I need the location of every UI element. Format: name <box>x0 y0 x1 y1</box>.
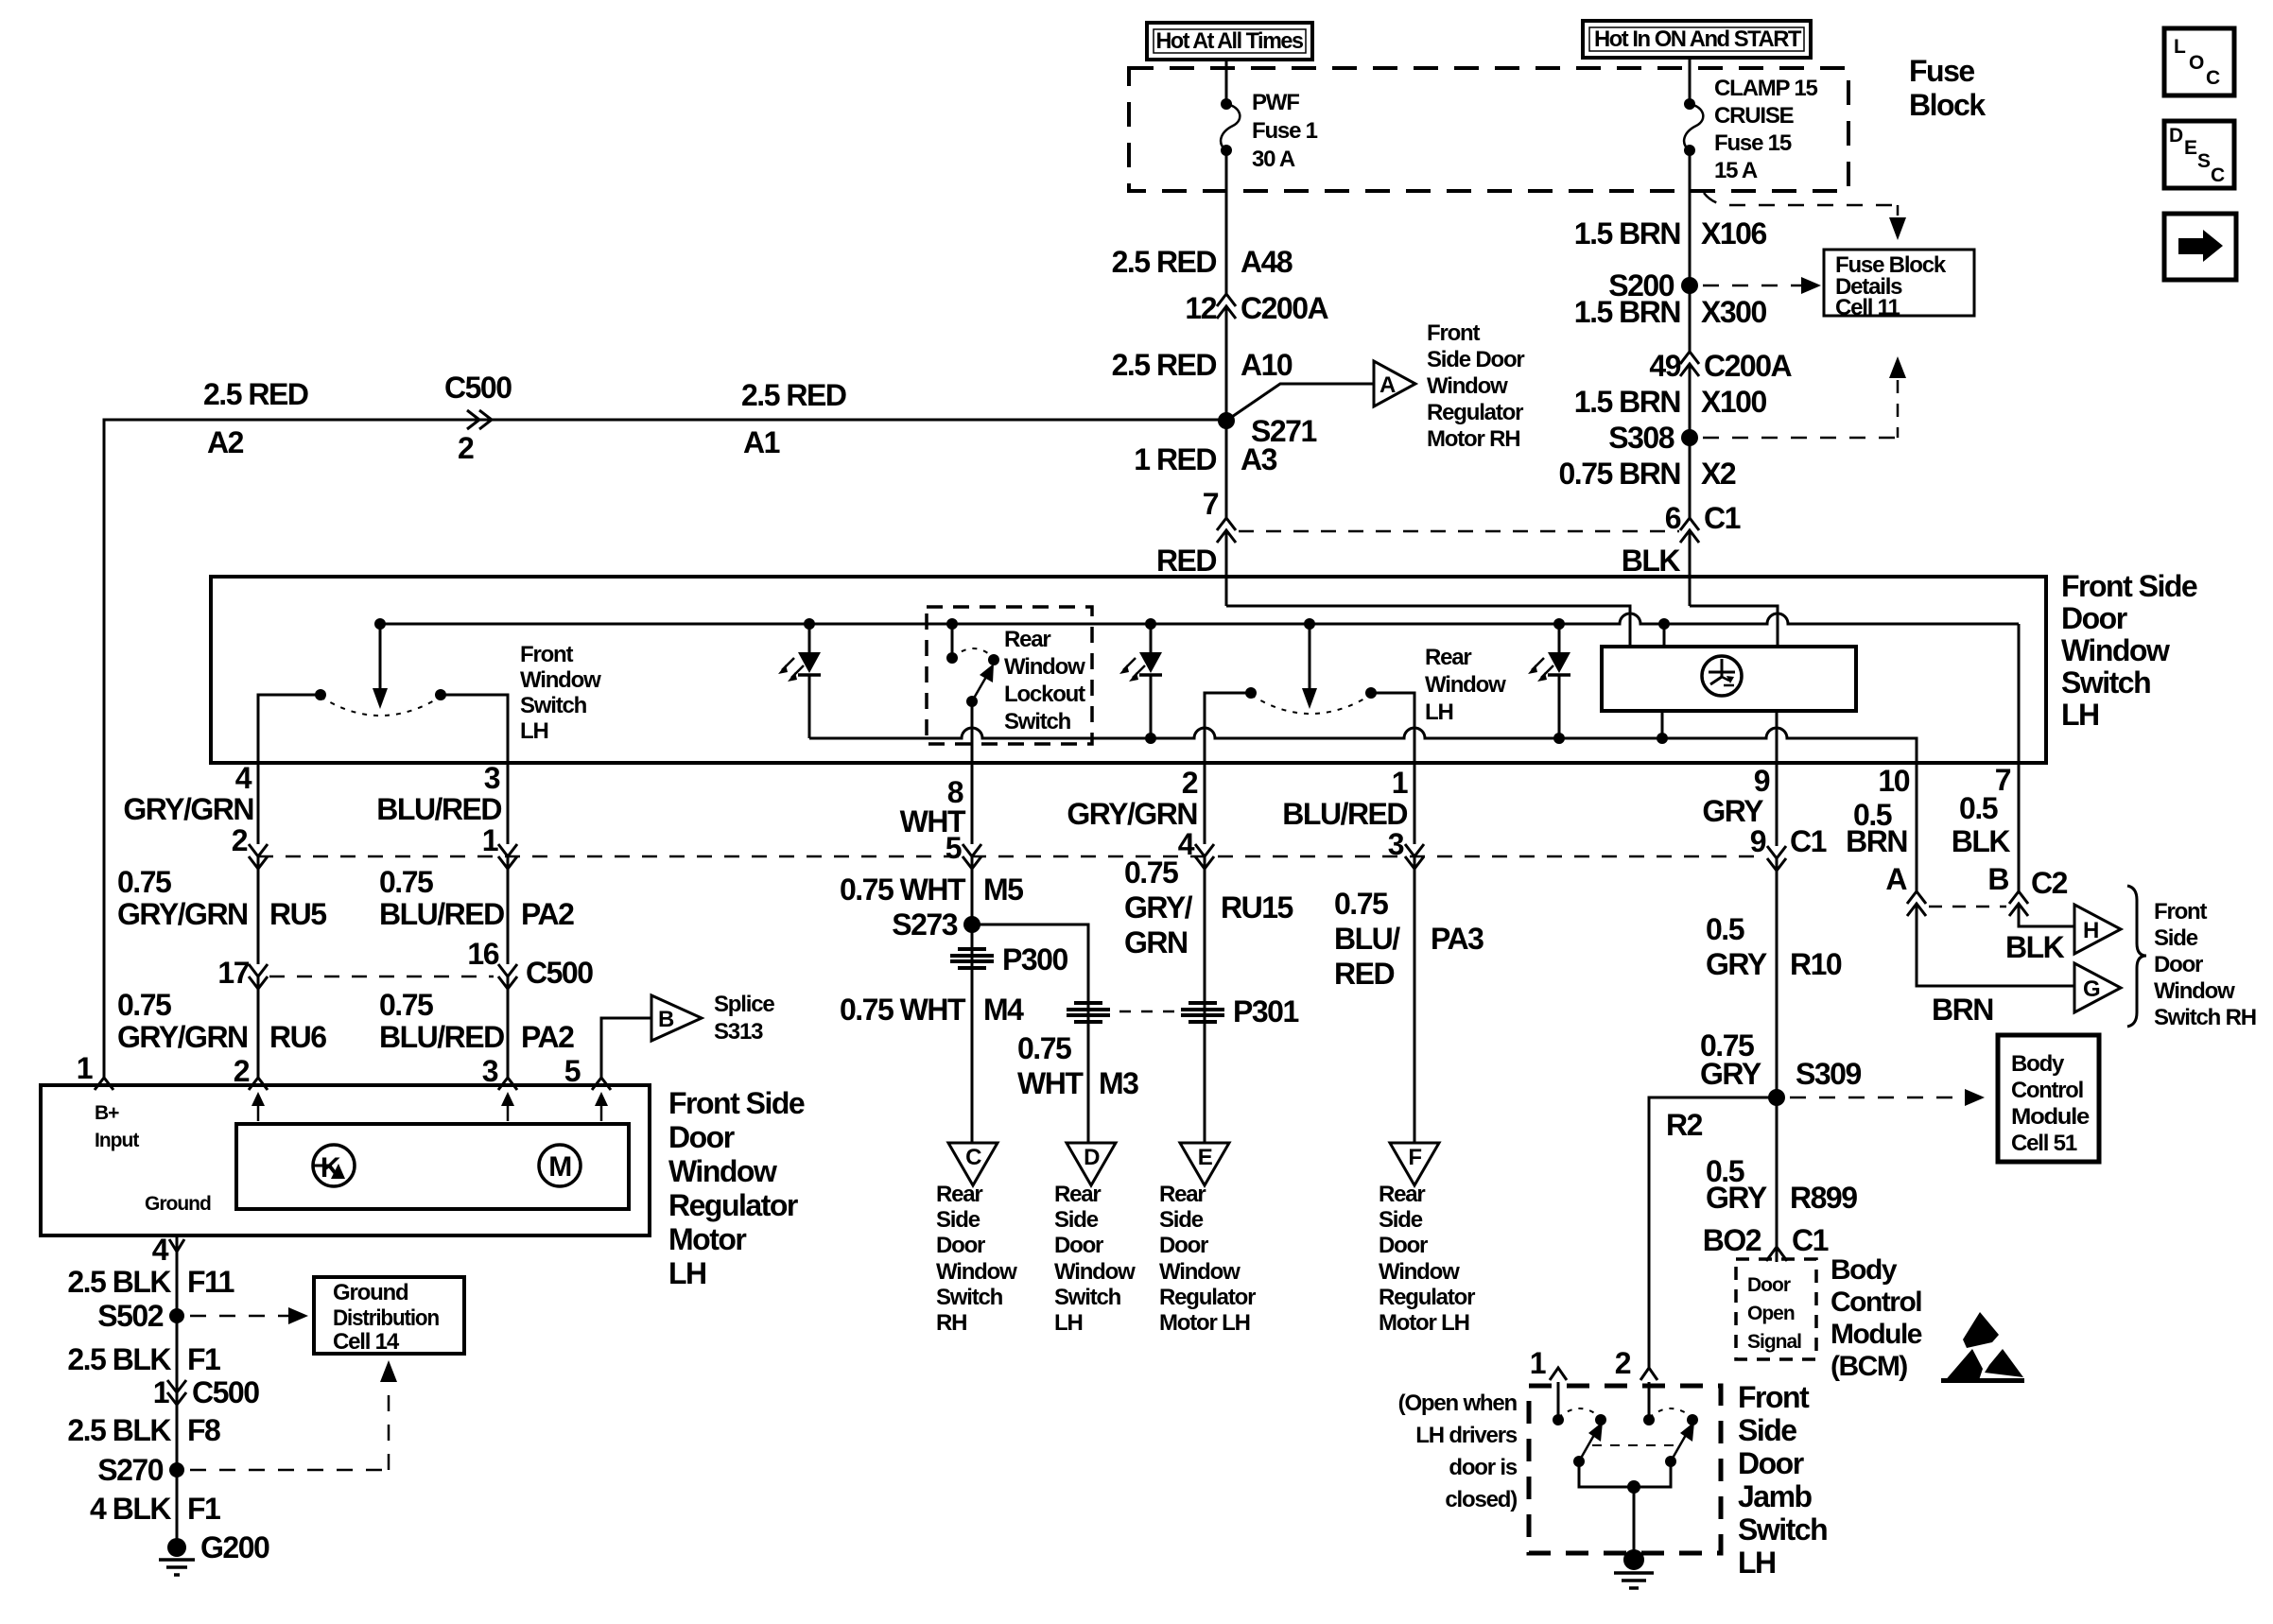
svg-text:Window: Window <box>1054 1259 1136 1285</box>
label pin 8 WHT 5 <box>900 775 966 865</box>
dashed box Front Side Door Jamb Switch LH <box>1529 1386 1721 1553</box>
connector C500 pins 17/16 <box>217 937 593 990</box>
svg-text:LH: LH <box>520 718 548 744</box>
svg-text:0.5: 0.5 <box>1959 791 1998 825</box>
svg-text:B+: B+ <box>95 1102 119 1124</box>
label 0.75 WHT M4 <box>840 993 1024 1027</box>
svg-text:BRN: BRN <box>1932 993 1993 1027</box>
wire 0.75 GRY/GRN RU5 <box>257 856 260 964</box>
label Rear Window LH <box>1425 645 1506 725</box>
wire 1.5 BRN X100 (C200A down to S308) <box>1689 364 1692 438</box>
svg-text:Signal: Signal <box>1747 1331 1801 1353</box>
svg-text:Window: Window <box>668 1154 777 1188</box>
off-page triangle E <box>1180 1143 1229 1185</box>
svg-text:0.75: 0.75 <box>117 988 171 1022</box>
svg-text:Cell 51: Cell 51 <box>2011 1131 2077 1156</box>
svg-text:Window: Window <box>2154 978 2235 1004</box>
label 1.5 BRN X300 <box>1574 295 1767 329</box>
fuse F1 PWF 30A <box>1221 98 1240 156</box>
svg-text:Control: Control <box>2011 1078 2083 1103</box>
svg-text:Front: Front <box>1427 320 1481 346</box>
svg-text:F8: F8 <box>187 1413 220 1447</box>
label CLAMP 15 CRUISE Fuse 15 15 A <box>1714 76 1818 183</box>
svg-text:Motor: Motor <box>668 1222 746 1256</box>
svg-text:C2: C2 <box>2031 866 2068 900</box>
dashed arrow S309 to BCM Cell 51 <box>1790 1089 1985 1106</box>
jamb switch common wire <box>1579 1461 1671 1558</box>
svg-text:17: 17 <box>217 956 249 990</box>
svg-text:4: 4 <box>235 761 252 795</box>
svg-text:Cell 14: Cell 14 <box>333 1329 400 1355</box>
svg-text:2.5 RED: 2.5 RED <box>1112 348 1217 382</box>
wire pin 1 BLU/RED to connector pin 3 <box>1414 763 1416 844</box>
svg-text:Control: Control <box>1831 1287 1921 1318</box>
entry chevron pin 3 with arrow inside <box>482 1054 517 1121</box>
svg-text:Rear: Rear <box>1004 627 1050 652</box>
wire 0.75 BRN X2 (S308 down to C1 pin 6) <box>1689 438 1692 518</box>
svg-text:2.5 RED: 2.5 RED <box>741 378 846 412</box>
component box Front Side Door Window Regulator Motor LH <box>41 1085 650 1235</box>
svg-text:F1: F1 <box>187 1342 220 1376</box>
wire RED jog inside box to module <box>1226 606 1630 648</box>
label pin 1 BLU/RED 3 <box>1282 766 1407 861</box>
component box Front Side Door Window Switch LH <box>211 577 2046 763</box>
ESD warning symbol <box>1941 1312 2024 1383</box>
svg-text:Window: Window <box>1004 654 1085 680</box>
svg-text:1: 1 <box>1530 1346 1546 1380</box>
wire 0.75 BLU/RED PA3 <box>1414 856 1416 1143</box>
svg-text:Window: Window <box>520 667 601 693</box>
svg-text:4 BLK: 4 BLK <box>90 1492 171 1526</box>
svg-text:A: A <box>1885 862 1907 896</box>
svg-text:RH: RH <box>936 1310 966 1336</box>
svg-text:Rear: Rear <box>936 1182 982 1207</box>
svg-text:Regulator: Regulator <box>1427 400 1523 425</box>
svg-text:C500: C500 <box>444 371 512 405</box>
svg-text:O: O <box>2189 52 2204 74</box>
svg-text:2.5 BLK: 2.5 BLK <box>67 1265 171 1299</box>
svg-text:A48: A48 <box>1241 245 1293 279</box>
wire 2.5 RED A2 (horizontal feed to S271) <box>104 420 1226 1079</box>
label 1.5 BRN X106 <box>1574 216 1767 251</box>
svg-text:GRY/: GRY/ <box>1124 890 1193 924</box>
svg-text:6: 6 <box>1665 501 1681 535</box>
connector chevrons pin2 <box>249 844 268 869</box>
off-page triangle D <box>1067 1143 1116 1185</box>
wire pin 4 GRY/GRN to connector pin 2 <box>257 763 260 844</box>
label (Open when LH drivers door is closed) <box>1398 1391 1518 1512</box>
svg-text:Front: Front <box>520 642 574 667</box>
label 2.5 BLK F11 <box>67 1265 234 1299</box>
wire module bottom through bus to pin 9 <box>1776 711 1778 763</box>
svg-text:Splice: Splice <box>714 992 774 1017</box>
svg-text:B: B <box>1987 862 2008 896</box>
svg-text:LH: LH <box>1054 1310 1083 1336</box>
wire R2 from S309 to jamb switch <box>1649 1097 1777 1368</box>
svg-text:9: 9 <box>1754 764 1770 798</box>
svg-text:Distribution: Distribution <box>333 1305 440 1331</box>
svg-text:Front Side: Front Side <box>2061 569 2197 603</box>
connector chevrons pin5 <box>963 844 981 869</box>
wire 1.5 BRN X106 (fuse15 down to S200) <box>1689 151 1692 285</box>
svg-text:B: B <box>658 1007 674 1032</box>
svg-text:9: 9 <box>1750 824 1766 858</box>
label PWF Fuse 1 30 A <box>1252 90 1318 172</box>
label 0.75 BLU/RED PA3 <box>1334 887 1484 991</box>
label Rear Side Door Window Switch LH <box>1054 1182 1136 1336</box>
wire 0.5 GRY R10 <box>1776 858 1778 1097</box>
lamp return bus (with hops) <box>809 728 1917 763</box>
svg-text:Window: Window <box>1425 672 1506 698</box>
svg-text:A2: A2 <box>207 425 244 459</box>
front window switch actuator arrow <box>373 624 388 709</box>
svg-text:BLU/RED: BLU/RED <box>376 792 501 826</box>
svg-text:(Open when: (Open when <box>1398 1391 1518 1416</box>
label 2.5 RED A2 <box>203 377 308 459</box>
svg-text:1: 1 <box>482 823 498 857</box>
dashed connector line below switch <box>258 855 1766 858</box>
svg-text:RU6: RU6 <box>269 1020 326 1054</box>
svg-text:Front Side: Front Side <box>668 1086 805 1120</box>
ground wire exit pin 4 <box>152 1233 184 1547</box>
window motor module box inside switch <box>1602 647 1856 711</box>
wire 0.75 GRY/GRN RU6 <box>257 976 260 1078</box>
svg-text:Side: Side <box>1159 1207 1204 1233</box>
wire pin 2 GRY/GRN to connector pin 4 <box>1204 763 1206 844</box>
junction S271 <box>1218 412 1316 448</box>
wire 1 RED A3 (S271 down to connector 7) <box>1225 421 1228 518</box>
svg-text:49: 49 <box>1649 349 1680 383</box>
svg-text:Side: Side <box>1379 1207 1423 1233</box>
svg-text:7: 7 <box>1995 763 2011 797</box>
jamb switch pole 1 <box>1553 1382 1606 1467</box>
svg-text:A3: A3 <box>1241 442 1277 476</box>
svg-text:2: 2 <box>1615 1346 1631 1380</box>
svg-text:Door: Door <box>1159 1233 1208 1258</box>
label 0.75 BLU/RED PA2 lower <box>379 988 574 1054</box>
svg-text:M4: M4 <box>983 993 1024 1027</box>
off-page triangle A <box>1374 361 1415 406</box>
label pin 7 0.5 BLK B C2 <box>1952 763 2068 900</box>
svg-text:PWF: PWF <box>1252 90 1299 115</box>
label Splice S313 <box>714 992 774 1045</box>
svg-text:5: 5 <box>946 831 962 865</box>
svg-text:0.5: 0.5 <box>1706 912 1744 946</box>
connector pin 7 (chevrons) <box>1203 487 1236 543</box>
brace for Front Side Door Window Switch RH <box>2127 886 2146 1027</box>
svg-text:BLU/RED: BLU/RED <box>379 1020 504 1054</box>
svg-text:Fuse 1: Fuse 1 <box>1252 118 1318 144</box>
label 0.75 GRY/GRN RU15 <box>1124 855 1293 959</box>
svg-text:H: H <box>2083 918 2098 943</box>
wire pin 3 BLU/RED to connector pin 1 <box>507 763 510 844</box>
svg-text:0.75 WHT: 0.75 WHT <box>840 872 966 907</box>
svg-text:GRN: GRN <box>1124 925 1188 959</box>
svg-text:GRY/GRN: GRY/GRN <box>117 897 248 931</box>
label Body Control Module (BCM) <box>1831 1254 1922 1382</box>
label 0.5 GRY R10 <box>1706 912 1842 981</box>
off-page triangle C <box>948 1143 998 1185</box>
legend box LOC <box>2164 28 2234 95</box>
label Rear Side Door Window Regulator Motor LH (F) <box>1379 1182 1475 1336</box>
svg-text:R899: R899 <box>1790 1181 1857 1215</box>
connector C500 pin 1 (ground) <box>153 1375 260 1409</box>
wire bus to pin 7 <box>2018 624 2021 763</box>
svg-text:M: M <box>548 1151 571 1183</box>
rear window switch contacts and rocker <box>1245 687 1377 714</box>
svg-text:0.75: 0.75 <box>1334 887 1388 921</box>
label 2.5 BLK F1 <box>67 1342 220 1376</box>
label Front Side Door Window Switch RH <box>2154 899 2256 1030</box>
dashed mechanical link <box>1592 1444 1679 1446</box>
wire 0.75 BLU/RED PA2 lower <box>507 976 510 1078</box>
ground symbol at jamb switch <box>1614 1549 1654 1588</box>
label Front Side Door Window Regulator Motor LH <box>668 1086 805 1290</box>
wire BRN to triangle G <box>1917 904 2074 986</box>
svg-text:3: 3 <box>484 761 500 795</box>
fuse F15 CLAMP 15 CRUISE 15A <box>1684 98 1703 156</box>
svg-text:GRY/GRN: GRY/GRN <box>117 1020 248 1054</box>
off-page triangle F <box>1390 1143 1439 1185</box>
label 0.75 GRY/GRN RU6 <box>117 988 326 1054</box>
svg-text:Rear: Rear <box>1159 1182 1206 1207</box>
wire 0.75 GRY/GRN RU15 <box>1204 856 1206 1143</box>
svg-text:0.75 WHT: 0.75 WHT <box>840 993 966 1027</box>
svg-text:C200A: C200A <box>1241 291 1329 325</box>
svg-text:Regulator: Regulator <box>668 1188 798 1222</box>
svg-text:0.75: 0.75 <box>117 865 171 899</box>
svg-text:Motor LH: Motor LH <box>1159 1310 1250 1336</box>
dashed box Door Open Signal <box>1736 1259 1816 1359</box>
label 0.75 BLU/RED PA2 <box>379 865 574 931</box>
svg-text:CLAMP 15: CLAMP 15 <box>1714 76 1818 101</box>
box Body Control Module Cell 51 <box>1998 1035 2099 1162</box>
label pin 2 GRY/GRN 4 <box>1067 766 1197 861</box>
svg-text:Jamb: Jamb <box>1738 1479 1813 1513</box>
wire BLK to triangle H <box>2019 904 2074 926</box>
svg-text:S502: S502 <box>97 1299 163 1333</box>
svg-text:Module: Module <box>2011 1104 2090 1130</box>
svg-text:F: F <box>1408 1145 1421 1170</box>
svg-text:Motor RH: Motor RH <box>1427 426 1519 452</box>
junction S200 <box>1608 268 1698 302</box>
svg-text:C: C <box>2211 164 2225 186</box>
svg-text:Front: Front <box>1738 1380 1810 1414</box>
svg-text:Door: Door <box>2154 952 2203 977</box>
wire rear switch right contact to pin 1 <box>1371 693 1414 763</box>
svg-text:Window: Window <box>1159 1259 1241 1285</box>
connector chevrons pin3 <box>1405 844 1424 869</box>
LED illumination lamp 2 <box>1119 624 1162 738</box>
svg-text:Rear: Rear <box>1425 645 1471 670</box>
svg-text:E: E <box>2184 137 2197 159</box>
svg-text:RED: RED <box>1334 957 1394 991</box>
svg-text:1 RED: 1 RED <box>1134 442 1216 476</box>
svg-text:GRY: GRY <box>1706 947 1767 981</box>
entry chevron pin 5 with arrow inside <box>564 1054 611 1121</box>
svg-text:Rear: Rear <box>1054 1182 1101 1207</box>
wire pin 5 to splice S313 triangle B <box>601 1018 651 1078</box>
svg-text:Side: Side <box>1054 1207 1099 1233</box>
wire branch from S271 to triangle A <box>1226 384 1374 421</box>
svg-text:0.75: 0.75 <box>379 865 433 899</box>
svg-text:Lockout: Lockout <box>1004 682 1085 707</box>
svg-text:Module: Module <box>1831 1319 1922 1350</box>
dashed connector line C2 <box>1929 906 2006 908</box>
svg-text:2: 2 <box>234 1054 250 1088</box>
box Fuse Block Details Cell 11 <box>1824 250 1974 320</box>
svg-text:2: 2 <box>232 823 248 857</box>
connector BO2 C1 chevron <box>1703 1223 1829 1261</box>
dashed line S308 up to details box with up arrow <box>1703 356 1906 438</box>
jamb switch pin 1 chevron <box>1530 1346 1567 1380</box>
wire stub from Hot In ON And START into fuse block <box>1689 58 1692 104</box>
grommet on branch M3 <box>1067 1003 1110 1022</box>
svg-text:BLK: BLK <box>1622 544 1681 578</box>
entry chevron pin 2 with arrow inside <box>234 1054 268 1121</box>
label B+ Input <box>95 1102 139 1151</box>
svg-text:Body: Body <box>1831 1254 1898 1286</box>
svg-text:WHT: WHT <box>1017 1066 1084 1100</box>
jamb switch pin 2 chevron <box>1615 1346 1657 1380</box>
svg-text:Ground: Ground <box>333 1280 408 1305</box>
svg-text:Door: Door <box>936 1233 985 1258</box>
svg-text:C500: C500 <box>526 956 593 990</box>
label 0.75 WHT M5 <box>840 872 1023 907</box>
clutch symbol K <box>313 1145 355 1186</box>
connector chevrons C2 pin A <box>1907 891 1926 916</box>
svg-text:C: C <box>965 1145 981 1170</box>
svg-text:1: 1 <box>153 1375 169 1409</box>
svg-text:RU15: RU15 <box>1221 890 1293 924</box>
svg-text:Window: Window <box>936 1259 1017 1285</box>
svg-text:A10: A10 <box>1241 348 1293 382</box>
svg-text:3: 3 <box>1388 827 1404 861</box>
wire front switch left contact to pin 4 <box>258 695 321 763</box>
label 2.5 RED A48 <box>1112 245 1293 279</box>
wire 0.5 BRN to connector C2 pin A <box>1916 763 1918 891</box>
svg-text:S313: S313 <box>714 1019 763 1045</box>
svg-text:Switch: Switch <box>936 1285 1003 1310</box>
svg-text:BLK: BLK <box>2005 930 2065 964</box>
svg-text:P301: P301 <box>1233 994 1298 1028</box>
off-page triangle G <box>2074 963 2121 1012</box>
grommet P301 <box>1181 994 1298 1028</box>
dashed arrow S200 to Fuse Block Details <box>1703 277 1821 294</box>
svg-text:X2: X2 <box>1701 457 1736 491</box>
lockout switch contact stub <box>946 624 958 664</box>
svg-text:F11: F11 <box>187 1265 234 1299</box>
label 2.5 BLK F8 <box>67 1413 220 1447</box>
svg-text:C500: C500 <box>192 1375 259 1409</box>
wire 0.5 BLK to connector C2 pin B <box>2018 763 2021 891</box>
label 1.5 BRN X100 <box>1574 385 1767 419</box>
svg-text:BO2: BO2 <box>1703 1223 1761 1257</box>
dashed connector line C1 left segment <box>1239 530 1679 533</box>
svg-text:PA2: PA2 <box>521 1020 574 1054</box>
svg-text:F1: F1 <box>187 1492 220 1526</box>
svg-text:S273: S273 <box>892 907 957 942</box>
connector C200A pin 12 (chevrons) <box>1185 291 1328 325</box>
wire rear switch left contact to pin 2 <box>1205 693 1251 763</box>
svg-text:Side: Side <box>1738 1413 1796 1447</box>
svg-text:Switch: Switch <box>2061 665 2150 700</box>
svg-text:7: 7 <box>1203 487 1219 521</box>
svg-text:30 A: 30 A <box>1252 147 1295 172</box>
wire 0.5 GRY R899 (S309 down to BO2) <box>1776 1097 1778 1262</box>
svg-text:Regulator: Regulator <box>1379 1285 1475 1310</box>
svg-text:BLU/: BLU/ <box>1334 922 1400 956</box>
svg-text:C200A: C200A <box>1704 349 1793 383</box>
svg-text:Front: Front <box>2154 899 2208 924</box>
label Rear Side Door Window Switch RH <box>936 1182 1017 1336</box>
connector C200A pin 49 (chevrons) <box>1649 349 1792 383</box>
svg-text:1: 1 <box>77 1051 93 1085</box>
svg-text:1: 1 <box>1392 766 1408 800</box>
connector C500 pin 2 (right chevrons) <box>444 371 512 465</box>
wire pin 9 GRY to connector C1 pin 9 <box>1776 763 1778 846</box>
svg-text:BLK: BLK <box>1952 824 2011 858</box>
off-page triangle H <box>2074 905 2121 954</box>
svg-text:Side Door: Side Door <box>1427 347 1524 372</box>
wire 0.75 WHT M5 <box>971 856 974 1143</box>
label Fuse Block <box>1909 54 1986 122</box>
svg-text:C1: C1 <box>1790 824 1827 858</box>
svg-text:D: D <box>2169 125 2183 147</box>
bus junction dots <box>374 618 386 630</box>
svg-text:Body: Body <box>2011 1051 2065 1077</box>
label 2.5 RED A10 <box>1112 348 1293 382</box>
svg-text:2.5 BLK: 2.5 BLK <box>67 1342 171 1376</box>
splice S273 <box>892 907 980 942</box>
svg-text:LH: LH <box>668 1256 706 1290</box>
svg-text:12: 12 <box>1185 291 1216 325</box>
svg-text:C: C <box>2206 67 2220 89</box>
svg-text:X100: X100 <box>1701 385 1766 419</box>
svg-text:L: L <box>2174 36 2186 58</box>
dashed box Rear Window Lockout Switch <box>927 607 1092 744</box>
off-page triangle B <box>651 995 702 1041</box>
label pin 3 BLU/RED 1 <box>376 761 501 857</box>
label Front Side Door Window Regulator Motor RH <box>1427 320 1524 452</box>
svg-text:Door: Door <box>1054 1233 1103 1258</box>
svg-text:15 A: 15 A <box>1714 158 1758 183</box>
label pin 9 GRY 9 C1 <box>1702 764 1826 858</box>
wire 2.5 RED A10 (C200A down to S271) <box>1225 306 1228 421</box>
svg-text:CRUISE: CRUISE <box>1714 103 1795 129</box>
label pin 4 GRY/GRN 2 <box>123 761 253 857</box>
svg-text:E: E <box>1198 1145 1213 1170</box>
svg-text:Switch: Switch <box>1054 1285 1121 1310</box>
svg-text:PA2: PA2 <box>521 897 574 931</box>
wire 2.5 RED A48 (fuse1 down to C200A) <box>1225 151 1228 294</box>
svg-text:Door: Door <box>2061 601 2127 635</box>
svg-text:Side: Side <box>936 1207 980 1233</box>
svg-text:0.75 BRN: 0.75 BRN <box>1559 457 1681 491</box>
svg-text:LH: LH <box>2061 698 2099 732</box>
svg-text:GRY/GRN: GRY/GRN <box>1067 797 1197 831</box>
svg-text:Open: Open <box>1747 1303 1795 1324</box>
wire BLK into switch box <box>1689 530 1692 606</box>
svg-text:P300: P300 <box>1002 942 1067 976</box>
svg-text:S309: S309 <box>1796 1057 1861 1091</box>
svg-text:Fuse: Fuse <box>1909 54 1974 88</box>
legend box arrow <box>2164 214 2236 280</box>
svg-text:2.5 BLK: 2.5 BLK <box>67 1413 171 1447</box>
svg-text:(BCM): (BCM) <box>1831 1351 1907 1382</box>
junction S502 <box>97 1299 184 1333</box>
junction S308 <box>1608 421 1698 455</box>
